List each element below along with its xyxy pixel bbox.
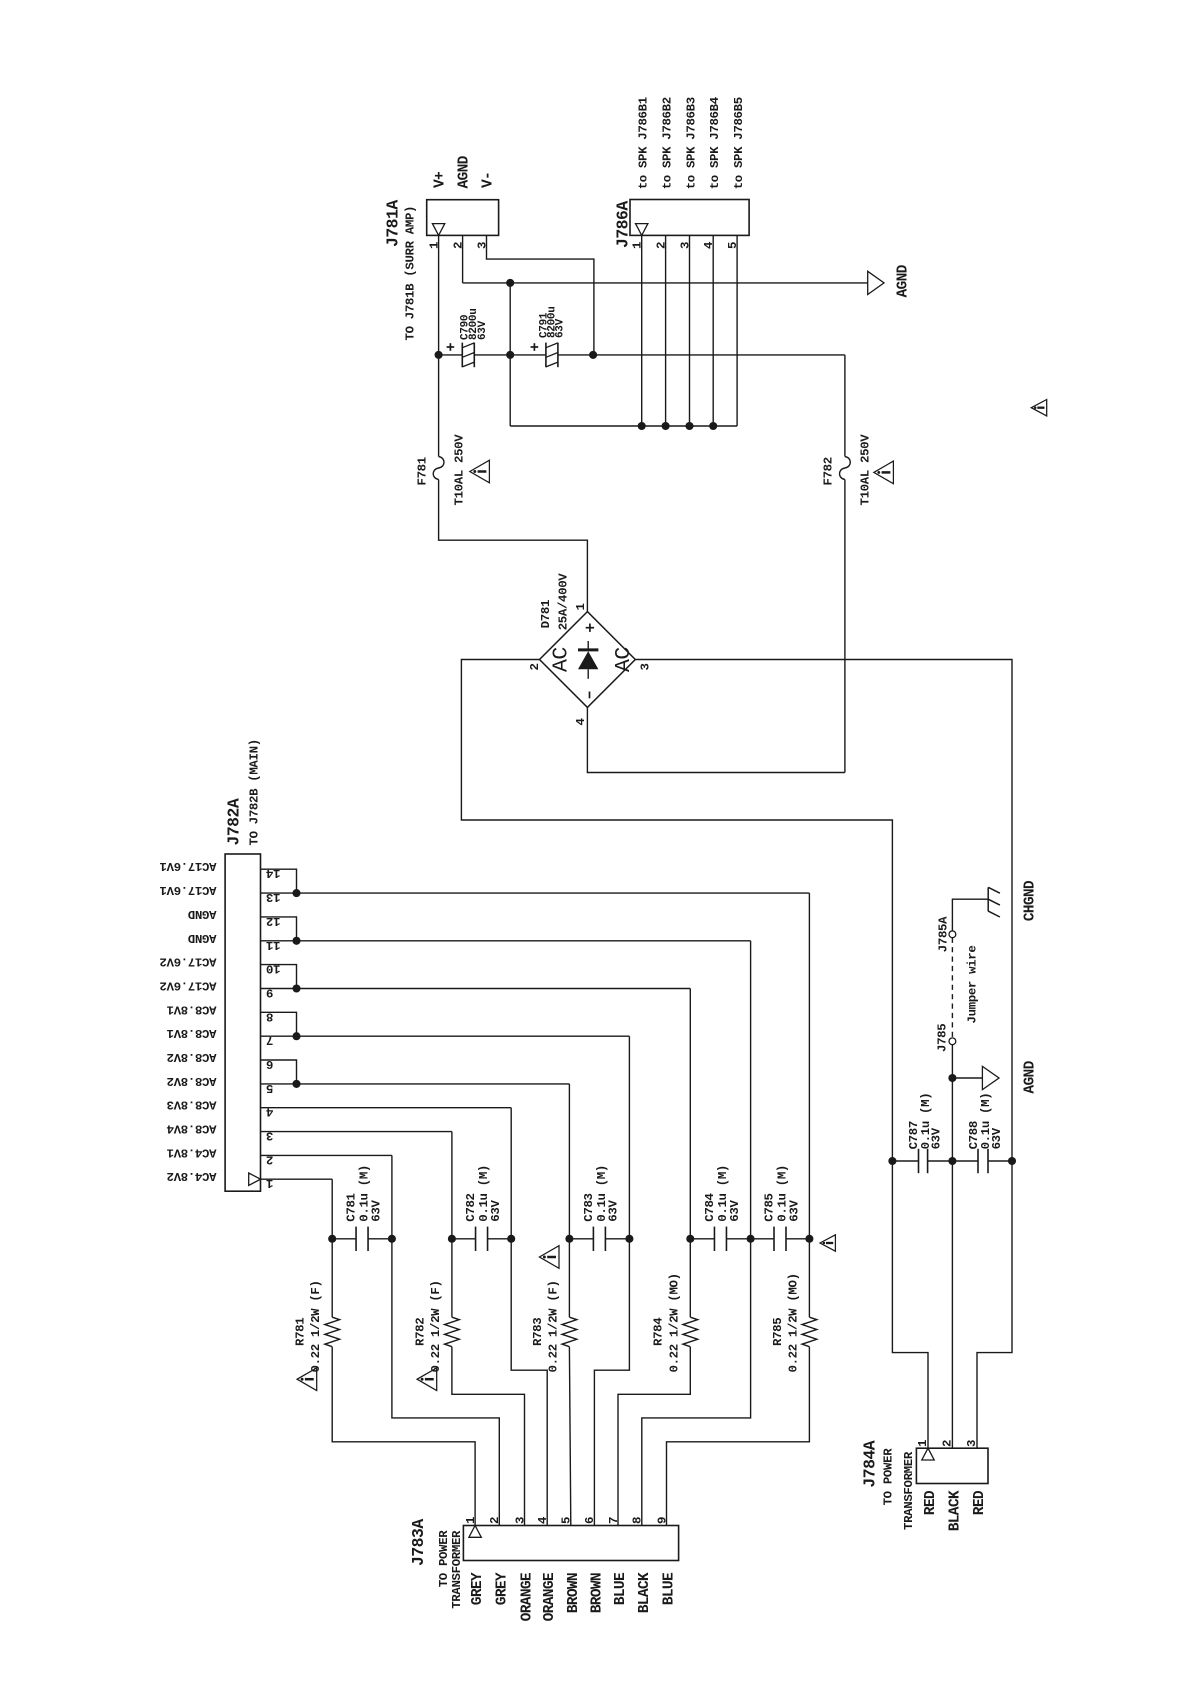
wire AC1 rail down to J784A pin1	[892, 1161, 928, 1448]
junction on AGND bus	[638, 422, 646, 430]
svg-text:F782: F782	[822, 457, 836, 485]
svg-text:4: 4	[574, 718, 588, 726]
wire column x451.9 into resistor R782	[451, 1239, 453, 1317]
svg-text:C781: C781	[345, 1193, 359, 1221]
svg-text:5: 5	[266, 1081, 273, 1095]
wire column x569.4 into resistor R783	[568, 1239, 570, 1317]
wire J786A pin1 down to AGND bus	[641, 235, 643, 426]
label D781 minus	[589, 692, 591, 699]
wire AC4.8V1 column to J783A pin2	[392, 1239, 499, 1526]
wire J782A pin10 stub	[261, 965, 297, 989]
wire bridge pin2 to AC1 rail	[461, 660, 892, 1162]
svg-text:9: 9	[655, 1517, 669, 1524]
wire R782 to J783A pin3	[452, 1347, 525, 1526]
capacitor C781	[332, 1238, 356, 1240]
svg-text:GREY: GREY	[470, 1572, 486, 1605]
wire J782A pin8 stub	[261, 1012, 297, 1036]
wire R785 to J783A pin9	[667, 1347, 810, 1526]
svg-text:C783: C783	[582, 1193, 596, 1221]
warning triangle at C783	[539, 1246, 559, 1269]
wire column x332.2 into resistor R781	[331, 1239, 333, 1317]
junction on cap row	[686, 1235, 694, 1243]
svg-text:AC17.6V2: AC17.6V2	[160, 955, 217, 969]
svg-text:BLACK: BLACK	[947, 1490, 963, 1531]
svg-text:AC4.8V2: AC4.8V2	[167, 1169, 217, 1183]
svg-text:BLUE: BLUE	[662, 1572, 678, 1605]
svg-text:AC8.8V3: AC8.8V3	[167, 1098, 217, 1112]
wire rail C790 to AGND node	[474, 354, 510, 356]
wire J782A pin7 AC8.8V1 horizontal	[261, 1035, 630, 1037]
svg-text:to SPK J786B3: to SPK J786B3	[684, 97, 698, 189]
connector J786A pin-1 arrow	[636, 224, 648, 236]
svg-text:Jumper wire: Jumper wire	[966, 946, 980, 1024]
junction J782A pin8/7	[292, 1032, 300, 1040]
svg-text:RED: RED	[923, 1490, 939, 1515]
connector J784A pin-1 arrow	[922, 1448, 934, 1460]
wire J786A pin5 down to AGND bus	[736, 235, 738, 426]
fuse F781	[433, 457, 444, 480]
warning triangle at F782	[874, 461, 894, 484]
svg-text:25A/400V: 25A/400V	[556, 573, 570, 631]
capacitor C785	[751, 1238, 774, 1240]
svg-text:10: 10	[266, 962, 280, 976]
wire C788 to AC2 rail	[988, 1160, 1012, 1162]
svg-text:9: 9	[266, 986, 273, 1000]
svg-text:63V: 63V	[607, 1200, 621, 1222]
svg-text:8: 8	[266, 1009, 273, 1023]
svg-text:GREY: GREY	[494, 1572, 510, 1605]
capacitor C783	[569, 1238, 593, 1240]
svg-text:5: 5	[726, 242, 740, 249]
wire C787 to AGND rail	[928, 1160, 953, 1162]
terminal J785A	[949, 931, 956, 938]
svg-text:CHGND: CHGND	[1023, 880, 1039, 921]
junction on cap row	[388, 1235, 396, 1243]
svg-text:R785: R785	[771, 1318, 785, 1346]
svg-text:3: 3	[513, 1517, 527, 1524]
junction on cap row	[448, 1235, 456, 1243]
svg-text:R783: R783	[531, 1318, 545, 1346]
wire AGND horizontal to ground symbol	[463, 282, 868, 284]
junction AGND cap row	[948, 1157, 956, 1165]
svg-text:4: 4	[536, 1516, 550, 1524]
connector J786A box	[630, 200, 749, 236]
svg-text:63V: 63V	[554, 318, 566, 338]
svg-text:AC: AC	[612, 647, 636, 672]
svg-text:D781: D781	[539, 600, 553, 628]
svg-text:R782: R782	[413, 1318, 427, 1346]
svg-text:0.22 1/2W (MO): 0.22 1/2W (MO)	[786, 1273, 800, 1372]
svg-text:J786A: J786A	[613, 201, 632, 248]
svg-text:3: 3	[639, 663, 653, 670]
wire J782A pin2 AC4.8V1 horizontal	[261, 1154, 392, 1156]
junction AGND at x510	[506, 279, 514, 287]
connector J782A pin-1 arrow	[249, 1173, 261, 1185]
svg-text:63V: 63V	[930, 1127, 944, 1149]
wire J781A pin1 to fuse F781	[438, 235, 440, 456]
wire J786A pin3 down to AGND bus	[689, 235, 691, 426]
svg-text:TO J781B (SURR AMP): TO J781B (SURR AMP)	[404, 206, 418, 341]
wire column x690.3 down to cap row	[689, 989, 691, 1239]
svg-text:RED: RED	[972, 1490, 988, 1515]
svg-text:0.22 1/2W (F): 0.22 1/2W (F)	[429, 1280, 443, 1372]
svg-text:AC8.8V1: AC8.8V1	[167, 1026, 217, 1040]
svg-text:F781: F781	[416, 457, 430, 485]
wire J782A pin9 AC17.6V2 horizontal	[261, 988, 691, 990]
svg-text:TO J782B (MAIN): TO J782B (MAIN)	[248, 739, 262, 845]
wire J786A pin2 down to AGND bus	[665, 235, 667, 426]
connector J782A box	[225, 854, 260, 1191]
junction on cap row	[625, 1235, 633, 1243]
diode symbol inside D781	[587, 641, 589, 650]
svg-text:to SPK J786B2: to SPK J786B2	[661, 97, 675, 189]
wire AC2 rail down to J784A pin3	[977, 1161, 1012, 1448]
junction J782A pin6/5	[292, 1080, 300, 1088]
wire J781A pin2 AGND down	[462, 235, 464, 283]
junction AGND on rail	[506, 351, 514, 359]
wire AGND mid vertical x510	[509, 283, 511, 426]
svg-text:63V: 63V	[728, 1200, 742, 1222]
junction AC1 cap row	[888, 1157, 896, 1165]
wire rail AGND node to C791	[510, 354, 546, 356]
ground symbol AGND lower	[982, 1066, 999, 1089]
wire AGND bus y426	[510, 425, 737, 427]
svg-text:to SPK J786B5: to SPK J786B5	[732, 97, 746, 189]
wire F781 to bridge pin1	[439, 480, 588, 612]
connector J783A box	[463, 1526, 678, 1561]
svg-text:4: 4	[265, 1105, 273, 1119]
junction on AGND bus	[709, 422, 717, 430]
wire J782A pin3 AC8.8V4 horizontal	[261, 1131, 452, 1133]
wire bridge pin4 to F782	[587, 707, 845, 772]
wire column x391.9 down to cap row	[391, 1155, 393, 1238]
svg-text:AC: AC	[550, 647, 574, 672]
svg-text:to SPK J786B4: to SPK J786B4	[708, 96, 722, 189]
wire J785 down to J784A pin2	[951, 1045, 953, 1449]
wire column x750.6 down to cap row	[750, 941, 752, 1239]
junction J782A pin14/13	[292, 889, 300, 897]
svg-text:63V: 63V	[369, 1200, 383, 1222]
wire rail C791 to V- node	[558, 354, 593, 356]
warning triangle at R782	[417, 1368, 437, 1391]
svg-text:ORANGE: ORANGE	[520, 1572, 536, 1621]
svg-text:1: 1	[266, 1176, 273, 1190]
label D781 plus	[586, 627, 594, 629]
svg-text:2: 2	[528, 663, 542, 670]
junction J782A pin12/11	[292, 937, 300, 945]
wire J782A pin4 AC8.8V3 horizontal	[261, 1107, 512, 1109]
wire R784 to J783A pin7	[618, 1347, 690, 1526]
svg-text:V+: V+	[433, 171, 449, 188]
junction V+ rail at pin1 wire	[435, 351, 443, 359]
svg-text:C782: C782	[464, 1193, 478, 1221]
wire column x569.4 down to cap row	[568, 1084, 570, 1239]
svg-text:T10AL 250V: T10AL 250V	[859, 434, 873, 506]
svg-text:to SPK J786B1: to SPK J786B1	[637, 97, 651, 189]
junction on cap row	[328, 1235, 336, 1243]
svg-text:AC8.8V2: AC8.8V2	[167, 1074, 217, 1088]
svg-text:3: 3	[266, 1129, 273, 1143]
svg-text:J782A: J782A	[224, 798, 243, 845]
svg-text:AC8.8V2: AC8.8V2	[167, 1050, 217, 1064]
junction J782A pin10/9	[292, 984, 300, 992]
svg-text:7: 7	[607, 1517, 621, 1524]
svg-text:BLUE: BLUE	[613, 1572, 629, 1605]
connector J783A pin-1 arrow	[469, 1526, 481, 1538]
wire AGND rail to C788	[952, 1160, 978, 1162]
warning triangle at F781	[470, 460, 490, 483]
lone warning triangle right	[1031, 400, 1046, 416]
svg-text:7: 7	[266, 1033, 273, 1047]
svg-text:AC17.6V2: AC17.6V2	[160, 979, 217, 993]
capacitor C784	[690, 1238, 714, 1240]
wire AC8.8V3 column to J783A pin4	[511, 1239, 547, 1526]
junction on cap row	[507, 1235, 515, 1243]
junction on cap row	[805, 1235, 813, 1243]
wire to AGND ground symbol	[952, 1077, 982, 1079]
jumper wire dashed	[951, 938, 953, 1038]
svg-text:2: 2	[488, 1517, 502, 1524]
junction V- on rail	[589, 351, 597, 359]
svg-text:R784: R784	[652, 1317, 666, 1346]
capacitor C791	[545, 343, 547, 368]
svg-text:1: 1	[574, 603, 588, 610]
wire R781 to J783A pin1	[332, 1347, 475, 1526]
svg-text:ORANGE: ORANGE	[542, 1572, 558, 1621]
resistor R782	[445, 1317, 460, 1347]
svg-text:BLACK: BLACK	[637, 1572, 653, 1613]
svg-text:J784A: J784A	[860, 1440, 879, 1487]
junction on AGND bus	[662, 422, 670, 430]
svg-text:TO POWER: TO POWER	[881, 1448, 895, 1506]
svg-text:0.22 1/2W (MO): 0.22 1/2W (MO)	[667, 1273, 681, 1372]
svg-text:63V: 63V	[990, 1127, 1004, 1149]
resistor R784	[683, 1317, 698, 1347]
svg-text:63V: 63V	[489, 1200, 503, 1222]
svg-text:AC8.8V1: AC8.8V1	[167, 1002, 217, 1016]
svg-text:AGND: AGND	[188, 931, 216, 945]
connector J781A box	[427, 200, 499, 236]
junction on AGND bus	[685, 422, 693, 430]
svg-text:6: 6	[266, 1057, 273, 1071]
svg-text:J783A: J783A	[409, 1519, 428, 1566]
warning triangle at R781	[297, 1368, 317, 1391]
wire column x690.3 into resistor R784	[689, 1239, 691, 1317]
connector J784A box	[916, 1448, 988, 1483]
wire J782A pin5 AC8.8V2 horizontal	[261, 1083, 570, 1085]
wire J781A pin3 V- down	[487, 235, 594, 355]
wire F782 down to bridge pin4 path	[844, 480, 846, 773]
wire J782A pin6 stub	[261, 1060, 297, 1084]
bridge rectifier D781 diamond	[540, 612, 636, 708]
svg-text:TRANSFORMER: TRANSFORMER	[902, 1451, 916, 1530]
svg-text:14: 14	[265, 866, 280, 880]
junction on cap row	[565, 1235, 573, 1243]
svg-text:5: 5	[560, 1517, 574, 1524]
svg-text:3: 3	[965, 1440, 979, 1447]
svg-text:0.22 1/2W (F): 0.22 1/2W (F)	[309, 1280, 323, 1372]
wire V+ rail left	[439, 354, 463, 356]
fuse F782	[840, 457, 851, 480]
svg-text:8: 8	[631, 1517, 645, 1524]
svg-text:AGND: AGND	[457, 155, 473, 188]
svg-text:V-: V-	[480, 172, 496, 188]
svg-text:2: 2	[654, 242, 668, 249]
svg-text:63V: 63V	[787, 1200, 801, 1222]
wire J782A pin11 AGND horizontal	[261, 940, 751, 942]
wire J786A pin4 down to AGND bus	[712, 235, 714, 426]
capacitor C788	[977, 1149, 979, 1173]
svg-text:AC17.6V1: AC17.6V1	[160, 883, 217, 897]
svg-text:AC8.8V4: AC8.8V4	[166, 1122, 217, 1136]
warning triangle at C785	[820, 1235, 835, 1251]
svg-text:C784: C784	[703, 1192, 717, 1221]
wire V- rail down to fuse F782	[844, 355, 846, 457]
resistor R781	[325, 1317, 340, 1347]
wire J782A pin12 stub	[261, 917, 297, 941]
terminal J785	[949, 1038, 956, 1045]
svg-text:0.22 1/2W (F): 0.22 1/2W (F)	[546, 1280, 560, 1372]
svg-text:AGND: AGND	[1023, 1060, 1039, 1093]
svg-text:11: 11	[266, 938, 280, 952]
junction AGND at ground triangle	[948, 1074, 956, 1082]
ground symbol AGND top	[868, 271, 884, 294]
svg-text:TRANSFORMER: TRANSFORMER	[450, 1530, 464, 1609]
wire column x451.9 down to cap row	[451, 1132, 453, 1239]
svg-text:C785: C785	[763, 1193, 777, 1221]
wire J782A pin13 AC17.6V1 horizontal	[261, 892, 810, 894]
wire AGND column to J783A pin8	[642, 1239, 751, 1526]
svg-text:13: 13	[266, 890, 280, 904]
svg-text:J785A: J785A	[937, 916, 951, 952]
wire J782A pin14 stub	[261, 869, 297, 893]
wire column x332.2 down to cap row	[331, 1179, 333, 1239]
svg-text:AGND: AGND	[188, 907, 216, 921]
wire J782A pin1 AC4.8V2 horizontal	[261, 1178, 333, 1180]
svg-text:AGND: AGND	[896, 264, 912, 297]
capacitor C790	[461, 343, 463, 368]
svg-text:R781: R781	[294, 1318, 308, 1346]
svg-text:6: 6	[583, 1517, 597, 1524]
svg-text:J781A: J781A	[384, 200, 403, 247]
svg-text:2: 2	[266, 1152, 273, 1166]
resistor R783	[562, 1317, 577, 1347]
wire R783 to J783A pin5	[569, 1347, 570, 1526]
connector J781A pin-1 arrow	[432, 224, 444, 236]
chassis ground symbol CHGND	[987, 887, 989, 911]
wire column x809.4 into resistor R785	[808, 1239, 810, 1317]
svg-text:BROWN: BROWN	[566, 1573, 582, 1613]
svg-text:12: 12	[266, 914, 280, 928]
svg-text:BROWN: BROWN	[589, 1573, 605, 1613]
capacitor C782	[452, 1238, 476, 1240]
wire column x809.4 down to cap row	[808, 893, 810, 1239]
junction on cap row	[747, 1235, 755, 1243]
svg-text:2: 2	[940, 1440, 954, 1447]
wire AC8.8V1 column to J783A pin6	[594, 1239, 629, 1526]
svg-text:T10AL 250V: T10AL 250V	[452, 434, 466, 506]
wire column x511.2 down to cap row	[510, 1108, 512, 1239]
capacitor C787	[918, 1149, 920, 1173]
wire column x629.4 down to cap row	[628, 1036, 630, 1239]
junction AC2 cap row	[1008, 1157, 1016, 1165]
wire V- rail to fuse F782	[593, 354, 845, 356]
svg-text:AC4.8V1: AC4.8V1	[167, 1145, 217, 1159]
wire J785A to chassis ground	[952, 899, 988, 931]
svg-text:J785: J785	[936, 1024, 950, 1052]
wire bridge pin3 to AC2 rail	[635, 660, 1012, 1162]
svg-text:AC17.6V1: AC17.6V1	[160, 859, 217, 873]
svg-text:63V: 63V	[477, 320, 489, 340]
svg-text:1: 1	[464, 1517, 478, 1524]
resistor R785	[802, 1317, 817, 1347]
wire AC1 rail to C787	[892, 1160, 918, 1162]
svg-text:1: 1	[916, 1440, 930, 1447]
